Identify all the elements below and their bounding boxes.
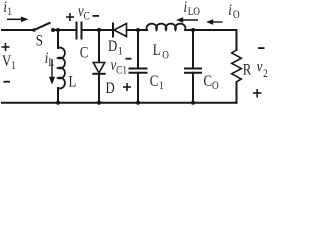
arrow iLO (left) — [176, 17, 198, 22]
switch contact dot right — [51, 28, 55, 32]
svg-text:R: R — [243, 61, 252, 79]
node D bottom dot — [97, 101, 101, 105]
svg-text:LO: LO — [153, 42, 169, 62]
label + of vC — [66, 13, 74, 21]
wire switch contact to capacitor C — [53, 29, 76, 31]
bottom rail — [2, 102, 237, 104]
resistor R zigzag — [232, 50, 242, 82]
wire resistor R to bottom rail — [236, 82, 238, 103]
wire node C1 down to capacitor C1 — [137, 30, 139, 68]
node CO bottom dot — [191, 101, 195, 105]
wire diode D to bottom rail — [98, 74, 100, 103]
wire node B down to diode D — [98, 30, 100, 62]
svg-text:L: L — [69, 73, 77, 91]
wire node A down to inductor L — [57, 30, 59, 48]
node C1 top dot — [136, 28, 140, 32]
minus of V1 — [4, 81, 11, 83]
svg-text:iLO: iLO — [184, 0, 201, 18]
node CO top dot — [191, 28, 195, 32]
svg-text:C1: C1 — [150, 73, 164, 93]
diode D1 cathode bar — [112, 24, 114, 37]
svg-text:V1: V1 — [2, 53, 16, 73]
node L bottom dot — [56, 101, 60, 105]
wire node D down to capacitor CO — [192, 30, 194, 68]
wire right vertical down to resistor R — [236, 30, 238, 50]
switch S blade — [34, 23, 50, 30]
minus of vC — [93, 15, 100, 17]
wire LO to right corner — [185, 29, 237, 31]
label + of vC1 — [123, 83, 131, 91]
minus of vC1 — [126, 58, 132, 60]
node A dot — [56, 28, 60, 32]
svg-text:CO: CO — [204, 73, 220, 93]
svg-text:iL: iL — [45, 50, 54, 70]
wire capacitor C to diode D1 — [82, 29, 113, 31]
capacitor CO plates — [185, 69, 201, 73]
inductor L coil vertical — [58, 48, 65, 89]
svg-text:D: D — [106, 80, 115, 98]
label + of v2 — [253, 89, 262, 98]
diode D triangle — [93, 63, 104, 74]
wire inductor L to bottom rail — [57, 88, 59, 103]
capacitor C plates — [77, 23, 82, 39]
wire capacitor CO to bottom rail — [192, 73, 194, 103]
wire capacitor C1 to bottom rail — [137, 73, 139, 103]
arrow iO (left) — [206, 19, 223, 24]
svg-text:v2: v2 — [257, 58, 268, 80]
label + of V1 — [2, 43, 10, 51]
node C1 bottom dot — [136, 101, 140, 105]
inductor LO coil — [147, 24, 186, 30]
svg-text:C: C — [80, 44, 89, 62]
minus of v2 — [258, 47, 265, 49]
wire D1 to node C1 and to inductor LO — [127, 29, 148, 31]
node B dot (D branch top) — [97, 28, 101, 32]
svg-text:D1: D1 — [108, 38, 123, 58]
svg-text:S: S — [36, 32, 43, 50]
svg-text:i1: i1 — [3, 0, 12, 19]
arrow iL (down) — [49, 59, 55, 85]
switch pivot dot — [32, 28, 35, 31]
wire top-left from V1+ to switch — [2, 29, 34, 31]
arrow i1 — [7, 17, 29, 23]
svg-text:vC1: vC1 — [111, 57, 127, 77]
diode D cathode bar — [93, 73, 104, 75]
svg-text:iO: iO — [228, 2, 240, 22]
diode D1 triangle — [114, 24, 127, 37]
capacitor C1 plates — [130, 69, 147, 73]
svg-text:vC: vC — [78, 3, 90, 23]
